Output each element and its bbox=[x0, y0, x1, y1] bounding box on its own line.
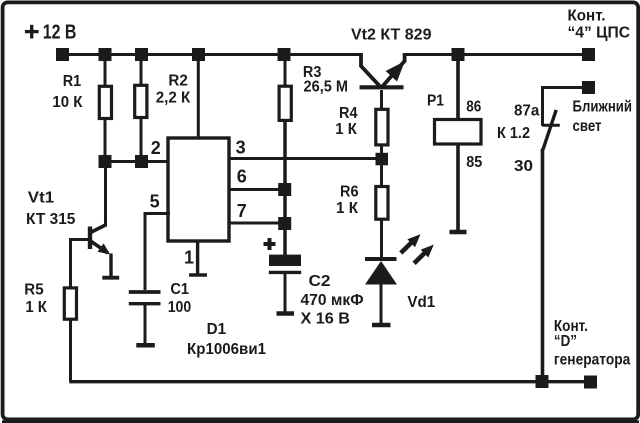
transistor Q2 Vt2 bbox=[360, 53, 405, 88]
resistor R4 bbox=[376, 109, 388, 145]
svg-text:3: 3 bbox=[236, 138, 246, 158]
wire pin6 net bbox=[229, 188, 285, 191]
resistor R5 bbox=[64, 288, 76, 319]
wire IC supply lead bbox=[197, 54, 200, 139]
wire LED bottom lead bbox=[380, 283, 383, 323]
svg-text:R5: R5 bbox=[24, 281, 43, 298]
svg-text:P1: P1 bbox=[427, 93, 444, 110]
ground bar C1 bbox=[136, 343, 155, 348]
wire R4 bottom lead bbox=[380, 144, 383, 160]
label D1 bbox=[187, 321, 266, 358]
wire pin5 net bbox=[145, 214, 170, 291]
wire R2 bottom lead bbox=[140, 118, 143, 161]
capacitor C2 polarity plus bbox=[264, 238, 276, 250]
capacitor C1 bbox=[129, 292, 161, 304]
node junction relay branch bbox=[452, 48, 465, 61]
wire pin3 net bbox=[229, 157, 382, 160]
label R6 value bbox=[336, 183, 359, 217]
node junction R2 top bbox=[135, 48, 148, 61]
svg-text:26,5 М: 26,5 М bbox=[304, 79, 349, 96]
wire R3 bottom to C2 bbox=[283, 121, 287, 256]
wire top rail left segment bbox=[62, 53, 363, 56]
svg-text:R2: R2 bbox=[168, 73, 187, 90]
LED Vd1 bbox=[365, 259, 397, 285]
terminal Kont 4 CPS bbox=[582, 48, 595, 61]
wire R6 to LED bbox=[380, 219, 383, 259]
label R5 value bbox=[24, 281, 47, 316]
IC D1 Kr1006vi1 body bbox=[168, 138, 229, 241]
relay coil P1 bbox=[435, 120, 482, 145]
svg-text:85: 85 bbox=[466, 154, 482, 171]
svg-text:87а: 87а bbox=[514, 103, 539, 120]
node junction R1 bottom bbox=[99, 155, 112, 168]
terminal +12V bbox=[56, 48, 69, 61]
svg-text:100: 100 bbox=[168, 299, 192, 316]
label R4 value bbox=[335, 105, 357, 138]
ground bar pin1 bbox=[189, 273, 207, 277]
node junction pin7 bbox=[278, 217, 291, 230]
capacitor C2 bbox=[269, 255, 301, 273]
ground bar relay bbox=[450, 230, 467, 235]
svg-text:10 К: 10 К bbox=[52, 94, 82, 111]
wire pin2 net bbox=[105, 160, 170, 163]
terminal Blizhniy svet bbox=[582, 81, 595, 94]
wire Vt1 base lead bbox=[71, 240, 89, 288]
label Kont 4 CPS bbox=[568, 8, 631, 42]
wire switch to bottom rail bbox=[541, 149, 545, 382]
ground bar Vd1 bbox=[372, 323, 391, 328]
transistor Q1 Vt1 bbox=[90, 162, 111, 277]
svg-text:2,2 К: 2,2 К bbox=[156, 90, 191, 107]
svg-text:D1: D1 bbox=[207, 321, 227, 338]
svg-text:2: 2 bbox=[151, 138, 161, 158]
node junction pin6 bbox=[278, 183, 291, 196]
wire relay coil top lead bbox=[456, 55, 460, 119]
svg-text:R4: R4 bbox=[339, 105, 358, 122]
LED arrow 2 bbox=[414, 245, 434, 264]
resistor R6 bbox=[376, 187, 388, 220]
node junction IC supply bbox=[192, 48, 205, 61]
wire pin1 lead bbox=[196, 241, 199, 274]
svg-text:генератора: генератора bbox=[554, 352, 630, 369]
svg-text:Кр1006ви1: Кр1006ви1 bbox=[187, 341, 266, 358]
label Kont D generatora bbox=[554, 318, 630, 369]
wire R5 bottom to ground rail bbox=[69, 319, 72, 382]
label Blizhniy svet bbox=[573, 99, 633, 136]
wire C1 bottom lead bbox=[144, 305, 147, 344]
label R3 value bbox=[303, 64, 348, 96]
resistor R3 bbox=[279, 86, 291, 120]
svg-text:Vt1: Vt1 bbox=[28, 190, 54, 207]
node junction pin3 R4 R6 bbox=[376, 153, 389, 166]
svg-text:КТ 315: КТ 315 bbox=[26, 211, 75, 228]
svg-text:“4” ЦПС: “4” ЦПС bbox=[568, 24, 631, 41]
node junction bottom rail bbox=[536, 375, 549, 388]
label C1 value bbox=[168, 281, 192, 316]
svg-text:6: 6 bbox=[237, 167, 247, 187]
wire relay coil bottom lead bbox=[456, 145, 460, 231]
wire bottom rail bbox=[69, 380, 590, 383]
svg-text:C2: C2 bbox=[309, 273, 331, 290]
wire top rail right segment bbox=[405, 53, 590, 56]
svg-text:R1: R1 bbox=[63, 73, 82, 90]
svg-text:Конт.: Конт. bbox=[568, 8, 606, 25]
switch fixed contact anvil bbox=[543, 124, 560, 127]
svg-text:1: 1 bbox=[184, 248, 194, 268]
wire R3 top lead bbox=[284, 54, 287, 88]
label Vt1 bbox=[26, 190, 75, 229]
svg-text:470 мкФ: 470 мкФ bbox=[301, 292, 364, 309]
svg-text:86: 86 bbox=[466, 99, 481, 116]
svg-text:К 1.2: К 1.2 bbox=[497, 125, 530, 142]
wire R6 top lead bbox=[380, 163, 383, 187]
switch blade K1.2 bbox=[543, 110, 556, 150]
LED arrow 1 bbox=[401, 234, 421, 253]
svg-text:30: 30 bbox=[514, 158, 533, 175]
wire R1 bottom lead bbox=[104, 119, 107, 162]
svg-text:Ближний: Ближний bbox=[573, 99, 633, 116]
ground bar Vt1 emitter bbox=[102, 276, 119, 280]
label R2 value bbox=[156, 73, 191, 107]
svg-text:Х 16 В: Х 16 В bbox=[301, 311, 351, 328]
svg-text:1 К: 1 К bbox=[25, 299, 47, 316]
net label +12V bbox=[25, 30, 39, 33]
wire C2 bottom lead bbox=[284, 273, 287, 312]
svg-text:5: 5 bbox=[150, 191, 160, 211]
ground bar C2 bbox=[277, 311, 295, 316]
node junction R3 top bbox=[278, 48, 291, 61]
svg-text:свет: свет bbox=[573, 118, 602, 135]
svg-text:1 К: 1 К bbox=[335, 121, 357, 138]
svg-text:C1: C1 bbox=[170, 281, 189, 298]
wire R1 top lead bbox=[104, 54, 107, 85]
wire pin7 net bbox=[229, 222, 285, 225]
wire R2 top lead bbox=[140, 54, 143, 87]
svg-text:7: 7 bbox=[237, 201, 247, 221]
svg-text:Vd1: Vd1 bbox=[407, 294, 435, 311]
svg-text:12 В: 12 В bbox=[43, 22, 77, 44]
node junction R1 top bbox=[99, 48, 112, 61]
label C2 value bbox=[301, 273, 364, 328]
wire Vt2 base lead bbox=[380, 90, 383, 109]
wire switch top bbox=[543, 88, 583, 127]
svg-text:“D”: “D” bbox=[554, 333, 577, 350]
terminal Kont D generatora bbox=[584, 376, 597, 389]
svg-text:1 К: 1 К bbox=[336, 200, 358, 217]
node junction R2 bottom bbox=[135, 155, 148, 168]
resistor R1 bbox=[99, 86, 111, 118]
svg-text:R6: R6 bbox=[340, 183, 359, 200]
svg-text:Vt2 КТ 829: Vt2 КТ 829 bbox=[351, 27, 432, 44]
label R1 value bbox=[52, 73, 82, 111]
resistor R2 bbox=[135, 85, 147, 117]
